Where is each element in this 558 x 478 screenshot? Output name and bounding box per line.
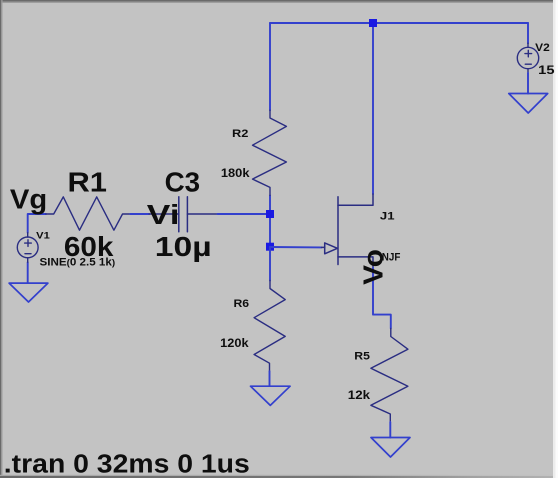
wire top rail to V2	[527, 23, 529, 43]
wire divider node vertical (junction1 to junction2)	[269, 195, 271, 246]
svg-text:R1: R1	[68, 166, 108, 198]
svg-text:R5: R5	[354, 351, 370, 363]
svg-text:SINE(0 2.5 1k): SINE(0 2.5 1k)	[40, 256, 116, 268]
junction at R2/R6 node	[266, 210, 274, 218]
svg-text:NJF: NJF	[382, 252, 401, 264]
svg-text:R2: R2	[232, 128, 248, 140]
resistor R5	[371, 329, 408, 423]
page edge shading right	[553, 0, 558, 478]
wire C3 right to divider node	[218, 213, 271, 215]
page edge shading top	[0, 0, 558, 2]
ground (V2)	[509, 94, 548, 114]
svg-text:Vg: Vg	[10, 183, 47, 215]
svg-text:J1: J1	[380, 211, 395, 223]
wire R2 top lead to top rail	[269, 23, 271, 110]
svg-text:15: 15	[538, 63, 555, 77]
ground (R5)	[371, 438, 410, 458]
voltage source V1	[17, 233, 38, 262]
junction top rail	[369, 19, 377, 27]
wire top rail	[270, 22, 528, 24]
svg-text:12k: 12k	[348, 388, 370, 402]
wire V1 bottom to ground	[27, 262, 29, 283]
svg-text:Vi: Vi	[147, 198, 180, 230]
wire R6 bottom to ground	[269, 371, 271, 386]
svg-text:10µ: 10µ	[155, 230, 212, 262]
wire R5 bottom to ground	[389, 422, 391, 438]
resistor R2	[253, 110, 287, 195]
svg-text:V2: V2	[535, 42, 550, 54]
svg-text:R6: R6	[234, 298, 250, 310]
wire drain to top rail	[372, 23, 374, 194]
ground (V1)	[9, 283, 48, 302]
capacitor C3	[149, 197, 217, 232]
wire R1 right to C3 left	[130, 213, 149, 215]
wire gate	[270, 246, 322, 248]
junction gate tap	[266, 243, 274, 251]
resistor R6	[254, 281, 285, 372]
svg-text:V1: V1	[36, 231, 50, 241]
transistor J1	[322, 194, 374, 268]
svg-text:180k: 180k	[221, 166, 250, 180]
voltage source V2	[517, 43, 538, 73]
svg-text:C3: C3	[165, 166, 201, 198]
wire junction2 to R6	[269, 247, 271, 281]
svg-text:120k: 120k	[220, 336, 249, 350]
page edge shading left	[0, 0, 1, 478]
wire source down to R5	[373, 268, 391, 329]
wire V2 bottom to ground	[527, 73, 529, 94]
wire Vg node: V1 top to R1 left	[28, 214, 46, 233]
svg-text:.tran 0 32ms 0 1us: .tran 0 32ms 0 1us	[4, 449, 250, 478]
ground (R6)	[251, 386, 291, 405]
resistor R1	[46, 197, 130, 230]
